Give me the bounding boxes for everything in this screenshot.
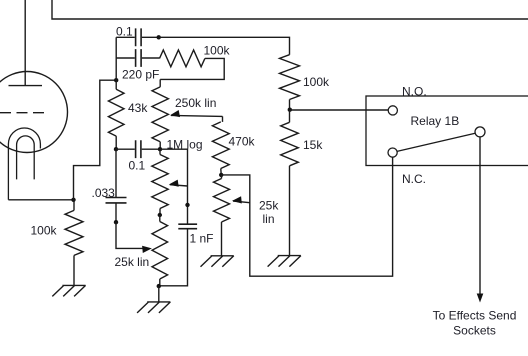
svg-text:100k: 100k xyxy=(204,44,231,58)
svg-text:100k: 100k xyxy=(303,75,330,89)
node 25k left bottom xyxy=(157,284,161,288)
capacitor 220 pF xyxy=(116,57,159,59)
resistor 470k xyxy=(222,116,224,122)
wiper 250k lin xyxy=(171,115,223,116)
svg-text:.033: .033 xyxy=(92,186,116,200)
svg-text:0.1: 0.1 xyxy=(129,159,146,173)
node on 1nF branch xyxy=(185,203,189,207)
node coupling node xyxy=(114,78,118,82)
wire cathode to 100k node xyxy=(8,199,73,201)
svg-text:N.O.: N.O. xyxy=(402,84,427,98)
wire 470k node to relay common xyxy=(221,157,392,276)
svg-text:43k: 43k xyxy=(128,101,148,115)
relay 1B box xyxy=(366,96,528,166)
wire cathode jog to coupling node xyxy=(74,80,117,200)
triode V1 cathode xyxy=(8,128,40,200)
node 0.1 output xyxy=(157,35,161,39)
svg-text:To Effects Send: To Effects Send xyxy=(433,308,517,322)
node divider tap xyxy=(288,108,292,112)
ground G1 xyxy=(52,285,85,296)
resistor 100k right xyxy=(280,55,300,100)
relay throw contact xyxy=(475,127,485,137)
potentiometer 250k lin xyxy=(159,79,161,87)
triode V1 heater xyxy=(17,136,35,179)
node 470k bottom xyxy=(219,173,223,177)
triode V1 grid xyxy=(0,112,47,114)
wire tap to relay NO xyxy=(290,109,388,111)
node .033 bottom xyxy=(114,220,118,224)
arrowhead to effects send xyxy=(477,294,484,303)
potentiometer 25k lin right xyxy=(221,175,223,179)
wiper 1M log xyxy=(170,185,188,186)
svg-text:25k lin: 25k lin xyxy=(115,255,150,269)
svg-text:15k: 15k xyxy=(303,138,323,152)
resistor 100k horizontal xyxy=(160,50,205,67)
node 43k bottom xyxy=(114,147,118,151)
svg-text:250k lin: 250k lin xyxy=(175,96,216,110)
wire B+ top rail xyxy=(52,0,528,19)
node cathode junction xyxy=(71,198,75,202)
wire coupling node up xyxy=(115,37,117,80)
relay common contact xyxy=(388,148,397,157)
capacitor 1 nF xyxy=(178,224,197,229)
resistor 43k xyxy=(115,80,117,89)
svg-text:1 nF: 1 nF xyxy=(190,232,214,246)
svg-text:470k: 470k xyxy=(229,135,256,149)
ground G2 xyxy=(137,302,170,313)
wire top to 1nF xyxy=(160,149,188,224)
relay arm xyxy=(397,133,475,151)
ground G3 xyxy=(201,256,234,267)
svg-text:100k: 100k xyxy=(31,224,58,238)
svg-text:N.C.: N.C. xyxy=(402,172,426,186)
svg-text:Relay 1B: Relay 1B xyxy=(411,114,460,128)
resistor R 100k (cathode load) xyxy=(73,200,75,211)
wire throw contact down xyxy=(479,137,481,296)
wiper 25k lin left xyxy=(116,222,145,248)
resistor 15k xyxy=(289,110,291,123)
svg-text:0.1: 0.1 xyxy=(116,25,133,39)
wire 100k out loop to 250k top xyxy=(160,58,224,79)
capacitor .033 xyxy=(115,149,117,197)
wiper 25k lin right xyxy=(233,201,250,203)
svg-text:Sockets: Sockets xyxy=(453,323,496,337)
relay NO contact xyxy=(388,106,397,115)
svg-text:lin: lin xyxy=(263,212,275,226)
potentiometer 1M log xyxy=(159,149,161,154)
triode V1 plate xyxy=(9,0,43,86)
wire 0.1 to right 100k xyxy=(159,37,290,54)
wire 25k bottom to ground xyxy=(158,286,160,302)
node 250k bottom xyxy=(158,147,162,151)
svg-text:25k: 25k xyxy=(259,199,279,213)
ground G4 xyxy=(268,256,301,267)
potentiometer 25k lin left xyxy=(159,215,161,222)
triode V1 envelope xyxy=(0,72,68,153)
node 1M bottom xyxy=(158,213,162,217)
svg-text:220 pF: 220 pF xyxy=(122,68,159,82)
capacitor 0.1 top xyxy=(116,36,159,38)
capacitor 0.1 lower xyxy=(116,148,160,150)
